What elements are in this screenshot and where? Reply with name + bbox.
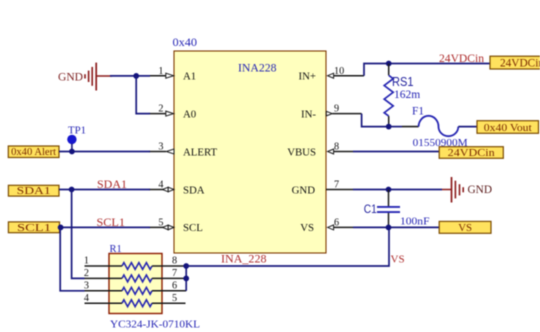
address label 0x40 [173, 35, 198, 49]
junction at GND/A1 [133, 73, 139, 79]
pin 7 GND [292, 180, 353, 197]
svg-text:0x40: 0x40 [173, 35, 198, 49]
shunt resistor RS1 [384, 64, 393, 127]
svg-text:2: 2 [158, 104, 163, 115]
wire alert port to pin 3 [59, 151, 150, 153]
svg-text:4: 4 [84, 293, 89, 304]
pin 6 VS [300, 218, 353, 235]
svg-text:SCL1: SCL1 [97, 217, 126, 229]
svg-text:8: 8 [172, 256, 177, 267]
svg-text:C1: C1 [364, 202, 377, 216]
svg-text:5: 5 [158, 218, 163, 229]
wire SDA1 port to pin 4 [59, 189, 150, 191]
net label VS [391, 254, 405, 266]
R1 pin 4 [84, 293, 122, 304]
port 0x40 Alert [8, 146, 59, 158]
net label INA_228 [221, 254, 267, 266]
fuse F1 [419, 116, 459, 136]
R1 element 4 zigzag [122, 300, 152, 307]
R1 element 2 zigzag [122, 275, 152, 282]
ground symbol left [58, 63, 112, 91]
capacitor C1 [377, 190, 400, 228]
net label SDA1 [97, 179, 127, 191]
R1 pin 8 [152, 256, 186, 267]
svg-text:SDA1: SDA1 [97, 179, 127, 191]
RS1 designator [392, 75, 414, 89]
pin 10 IN+ [299, 66, 364, 83]
svg-text:0x40 Alert: 0x40 Alert [11, 147, 56, 158]
R1 pin 7 [152, 268, 186, 279]
ground symbol right [442, 177, 492, 203]
pin 8 VBUS [287, 142, 353, 159]
junction at SDA1 [69, 187, 75, 193]
port SCL1 [8, 222, 59, 234]
wire pin9 down to IN- rail [362, 114, 389, 127]
svg-text:8: 8 [334, 142, 339, 153]
wire junction down to A0 [136, 76, 150, 114]
R1 pin 5 [152, 293, 186, 304]
pin 2 A0 [149, 104, 196, 121]
svg-text:ALERT: ALERT [183, 146, 218, 158]
R1 pin 2 [84, 268, 122, 279]
RS1 value 162m [394, 89, 420, 101]
svg-text:YC324-JK-0710KL: YC324-JK-0710KL [110, 319, 200, 331]
svg-text:3: 3 [84, 280, 89, 291]
port VS [439, 221, 491, 234]
svg-text:GND: GND [292, 184, 316, 196]
svg-text:6: 6 [172, 280, 177, 291]
svg-text:A0: A0 [183, 108, 196, 120]
junction bottom of RS1 [386, 124, 392, 130]
R1 part number [110, 319, 200, 331]
C1 designator [364, 202, 377, 216]
IC title INA228 [238, 63, 277, 75]
svg-text:4: 4 [158, 180, 163, 191]
resistor network R1 body [109, 254, 162, 314]
port 24VDCin top right [490, 56, 540, 69]
pin 4 SDA [149, 180, 205, 197]
svg-text:VS: VS [300, 222, 314, 234]
F1 part number 01550900M [413, 137, 468, 149]
svg-text:VBUS: VBUS [287, 146, 316, 158]
junction R1 pin 7 [183, 276, 189, 282]
R1 pin 3 [84, 280, 122, 291]
wire GND pin to ground [353, 189, 442, 191]
svg-text:GND: GND [468, 182, 493, 196]
R1 designator [110, 244, 122, 255]
wire SCL1 port to pin 5 [60, 226, 151, 228]
svg-text:100nF: 100nF [400, 216, 430, 228]
svg-text:0x40 Vout: 0x40 Vout [484, 122, 532, 134]
pin 5 SCL [149, 218, 203, 235]
wire fuse to Vout port [458, 126, 477, 128]
svg-text:IN-: IN- [301, 108, 316, 120]
F1 designator [412, 106, 424, 118]
svg-text:5: 5 [172, 293, 177, 304]
wire pin10 up to top rail [364, 64, 389, 76]
svg-text:24VDCin: 24VDCin [448, 147, 496, 159]
R1 element 1 zigzag [122, 263, 152, 270]
pin 1 A1 [149, 66, 196, 83]
junction top of RS1 [386, 61, 392, 67]
svg-text:SCL: SCL [183, 222, 203, 234]
svg-text:6: 6 [334, 218, 339, 229]
svg-text:VS: VS [391, 254, 405, 266]
junction at C1 bottom [386, 225, 392, 231]
wire VBUS to 24VDCin port [353, 151, 439, 153]
svg-text:9: 9 [334, 104, 339, 115]
svg-text:24VDCin: 24VDCin [439, 53, 484, 65]
pin 3 ALERT [149, 142, 218, 159]
svg-text:A1: A1 [183, 71, 196, 83]
svg-text:GND: GND [58, 70, 83, 84]
wire RS1 to fuse [389, 126, 419, 128]
svg-text:F1: F1 [412, 106, 424, 118]
IC U1 INA228 body [174, 51, 326, 253]
port SDA1 [8, 185, 59, 197]
svg-text:10: 10 [334, 66, 344, 77]
junction at SCL1 [58, 225, 64, 231]
svg-text:INA228: INA228 [238, 63, 277, 75]
svg-text:IN+: IN+ [299, 71, 316, 83]
wire VS rail bottom [186, 227, 389, 266]
svg-text:RS1: RS1 [392, 75, 414, 89]
svg-text:162m: 162m [394, 89, 420, 101]
junction at C1 top [386, 187, 392, 193]
port 0x40 Vout [477, 121, 539, 134]
svg-text:R1: R1 [110, 244, 122, 255]
svg-text:3: 3 [158, 142, 163, 153]
C1 value 100nF [400, 216, 430, 228]
svg-text:SDA: SDA [183, 184, 205, 196]
svg-text:TP1: TP1 [68, 125, 86, 137]
svg-text:1: 1 [158, 66, 163, 77]
svg-text:24VDCin: 24VDCin [500, 58, 540, 70]
wire GND to pin1 [110, 75, 150, 77]
R1 element 3 zigzag [122, 287, 152, 294]
svg-text:SDA1: SDA1 [17, 186, 51, 197]
R1 pin 6 [152, 280, 186, 291]
test point TP1 [67, 125, 86, 152]
wire SCL1 down to R1 pin3 [60, 227, 84, 290]
wire SDA1 down to R1 pin2 [72, 190, 85, 279]
svg-text:2: 2 [84, 268, 89, 279]
net label 24VDCin [439, 53, 484, 65]
wire VS pin to VS port [353, 226, 439, 228]
wire top rail to 24VDCin port [389, 63, 490, 65]
junction R1 pin 8 [183, 263, 189, 269]
svg-text:7: 7 [334, 180, 339, 191]
svg-text:1: 1 [84, 256, 89, 267]
R1 pin 1 [84, 256, 122, 267]
svg-text:INA_228: INA_228 [221, 254, 267, 266]
junction at TP1 [69, 149, 75, 155]
net label SCL1 [97, 217, 126, 229]
pin 9 IN- [301, 104, 362, 121]
svg-text:VS: VS [458, 222, 472, 234]
port 24VDCin bottom [439, 147, 503, 159]
svg-text:SCL1: SCL1 [17, 223, 51, 234]
wire R1 pins 8-6 vertical [185, 266, 187, 291]
svg-text:7: 7 [172, 268, 177, 279]
